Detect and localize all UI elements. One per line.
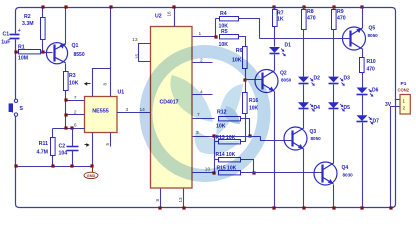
- svg-text:Q1: Q1: [72, 43, 79, 49]
- svg-text:13: 13: [132, 37, 138, 43]
- svg-text:C1: C1: [3, 32, 10, 38]
- svg-text:8030: 8030: [343, 173, 354, 178]
- svg-text:R4: R4: [220, 11, 227, 17]
- svg-text:1: 1: [199, 31, 202, 37]
- svg-text:470: 470: [337, 15, 346, 21]
- svg-text:470: 470: [307, 15, 316, 21]
- svg-text:U2: U2: [155, 14, 162, 20]
- svg-text:+: +: [18, 28, 21, 34]
- svg-text:8050: 8050: [311, 136, 322, 141]
- svg-text:8: 8: [103, 83, 108, 86]
- svg-text:C2: C2: [59, 144, 66, 150]
- svg-text:D6: D6: [372, 88, 379, 94]
- svg-text:5: 5: [105, 143, 110, 146]
- svg-text:13: 13: [178, 197, 183, 203]
- svg-text:R8: R8: [307, 9, 314, 15]
- svg-text:CON2: CON2: [398, 88, 410, 93]
- svg-text:3V: 3V: [385, 102, 392, 108]
- svg-text:U1: U1: [118, 90, 125, 96]
- svg-text:Q3: Q3: [310, 129, 317, 135]
- svg-text:R9: R9: [337, 9, 344, 15]
- svg-text:Q5: Q5: [369, 26, 376, 32]
- svg-text:GND: GND: [87, 174, 96, 178]
- svg-text:15: 15: [135, 53, 140, 59]
- svg-text:7: 7: [74, 95, 77, 101]
- svg-text:D7: D7: [373, 119, 380, 125]
- svg-text:S: S: [20, 106, 24, 112]
- svg-text:470: 470: [367, 67, 376, 73]
- svg-text:R5: R5: [221, 29, 228, 35]
- svg-text:1K: 1K: [277, 16, 284, 22]
- svg-text:1: 1: [403, 98, 406, 103]
- svg-text:R6: R6: [236, 48, 243, 54]
- svg-text:6: 6: [74, 123, 77, 129]
- svg-text:Q2: Q2: [280, 71, 287, 77]
- svg-text:8050: 8050: [368, 33, 379, 38]
- svg-text:4.7M: 4.7M: [36, 150, 48, 156]
- svg-text:2: 2: [200, 58, 203, 64]
- svg-text:10K: 10K: [69, 81, 79, 87]
- svg-text:10M: 10M: [18, 56, 28, 62]
- svg-text:1uF: 1uF: [1, 39, 10, 45]
- svg-text:R11: R11: [39, 141, 48, 147]
- svg-text:2: 2: [74, 110, 77, 116]
- svg-text:NE555: NE555: [92, 109, 108, 115]
- svg-text:16: 16: [167, 11, 172, 17]
- svg-text:R2: R2: [24, 14, 31, 20]
- svg-text:104: 104: [59, 151, 68, 157]
- svg-text:8: 8: [155, 199, 160, 202]
- svg-text:R3: R3: [69, 73, 76, 79]
- svg-text:D2: D2: [314, 76, 321, 82]
- svg-text:8550: 8550: [74, 52, 85, 58]
- svg-text:D1: D1: [285, 43, 292, 49]
- svg-text:D5: D5: [344, 105, 351, 111]
- svg-text:8050: 8050: [281, 78, 292, 83]
- svg-text:P1: P1: [401, 81, 407, 87]
- svg-text:3.3M: 3.3M: [22, 21, 34, 27]
- svg-text:D3: D3: [344, 76, 351, 82]
- svg-text:Q4: Q4: [342, 165, 349, 171]
- svg-text:3: 3: [126, 107, 129, 113]
- svg-text:2: 2: [403, 106, 406, 111]
- svg-text:R10: R10: [367, 59, 376, 65]
- svg-text:D4: D4: [314, 105, 321, 111]
- svg-text:R1: R1: [18, 45, 25, 51]
